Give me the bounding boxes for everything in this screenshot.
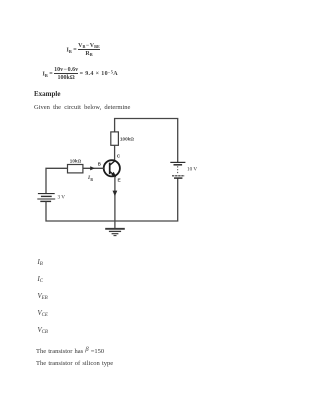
arrow IB on base wire [90,166,95,170]
battery V1 3V [38,193,55,195]
wire: collector lead [114,145,116,161]
svg-text:10kΩ: 10kΩ [70,159,82,164]
arrow IE on emitter wire [113,191,118,197]
transistor Q1 circle [104,160,120,176]
wire: emitter down to bottom rail [114,177,116,222]
wire: V1 bottom to bottom rail [46,178,178,221]
equation 1: IB = (VB - VBE)/RB [67,43,100,58]
list item VEB [38,293,48,300]
svg-text:C: C [117,154,121,160]
transistor Q1 base bar [109,163,111,175]
resistor RB 10k [68,165,83,173]
svg-text:B: B [90,178,93,182]
ground [114,221,116,228]
list item IB [38,259,43,266]
list item IC [38,276,44,283]
wire: top rail from RC top to V2 [115,119,178,163]
paragraph beta [36,348,104,355]
transistor Q1 emitter stroke with arrow [110,171,115,175]
list item VCB [38,327,48,334]
paragraph [34,104,130,111]
paragraph silicon [36,360,113,367]
heading Example [34,90,60,98]
svg-text:3 V: 3 V [58,194,66,200]
resistor RC 100k [111,132,119,145]
svg-text:10 V: 10 V [187,167,197,173]
svg-text:100kΩ: 100kΩ [120,137,134,142]
equation 2: IB = (10v-0.6v)/100kΩ = 9.4e-5 A [43,67,118,82]
transistor Q1 collector stroke [110,161,116,166]
svg-text:B: B [98,161,101,166]
svg-text:E: E [118,178,122,184]
wire: from V1 top to RB [46,168,68,193]
list item VCE [38,310,48,317]
battery V2 10V [170,161,185,163]
wire: base lead from RB to Q1 [83,167,104,169]
